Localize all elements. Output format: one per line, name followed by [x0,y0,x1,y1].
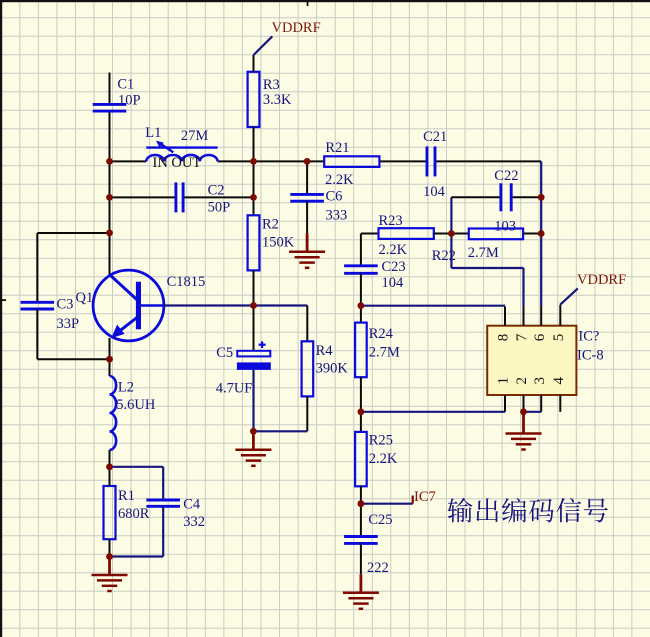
svg-text:C25: C25 [368,512,392,528]
svg-text:104: 104 [382,275,405,291]
svg-text:8: 8 [496,334,512,342]
svg-text:27M: 27M [181,128,209,144]
svg-text:50P: 50P [208,200,231,216]
svg-text:L1: L1 [145,125,161,141]
svg-text:3.3K: 3.3K [263,92,292,108]
svg-text:4.7UF: 4.7UF [216,381,253,397]
svg-text:10P: 10P [118,93,141,109]
svg-text:C4: C4 [183,497,201,513]
svg-text:R23: R23 [379,213,403,229]
svg-text:680R: 680R [118,506,150,522]
svg-text:R22: R22 [432,248,456,264]
svg-text:VDDRF: VDDRF [272,20,321,36]
svg-text:C2: C2 [208,183,225,199]
svg-text:C22: C22 [494,168,518,184]
svg-text:2: 2 [514,377,530,385]
svg-text:5.6UH: 5.6UH [116,397,156,413]
svg-text:C6: C6 [326,189,343,205]
svg-text:390K: 390K [316,361,349,377]
svg-text:6: 6 [532,333,548,341]
svg-text:C5: C5 [216,345,233,361]
svg-text:C3: C3 [57,297,74,313]
svg-text:7: 7 [514,333,530,341]
svg-text:33P: 33P [57,316,80,332]
svg-text:104: 104 [423,184,446,200]
svg-text:R21: R21 [325,140,349,156]
svg-text:IC-8: IC-8 [577,348,604,364]
svg-text:R25: R25 [369,433,393,449]
svg-text:R2: R2 [262,217,279,233]
svg-text:2.7M: 2.7M [369,345,400,361]
svg-text:332: 332 [183,514,205,530]
svg-text:2.2K: 2.2K [325,172,354,188]
svg-text:150K: 150K [262,234,295,250]
svg-text:IC?: IC? [578,329,599,345]
svg-text:C23: C23 [382,259,406,275]
svg-text:222: 222 [367,560,389,576]
svg-text:103: 103 [494,218,516,234]
svg-text:R24: R24 [369,326,394,342]
svg-text:4: 4 [551,377,567,385]
svg-text:VDDRF: VDDRF [577,272,626,288]
svg-text:R4: R4 [316,343,334,359]
svg-text:IN OUT: IN OUT [153,155,202,171]
svg-text:C1: C1 [117,77,134,93]
svg-text:2.2K: 2.2K [379,242,408,258]
svg-text:L2: L2 [118,380,134,396]
svg-text:Q1: Q1 [76,290,94,306]
svg-text:R1: R1 [118,488,135,504]
svg-text:5: 5 [551,334,567,342]
svg-text:C1815: C1815 [167,274,206,290]
svg-text:R3: R3 [263,77,280,93]
svg-text:2.2K: 2.2K [369,451,398,467]
svg-text:IC7: IC7 [414,489,436,505]
svg-text:3: 3 [532,377,548,385]
svg-text:2.7M: 2.7M [468,245,499,261]
svg-text:333: 333 [326,208,348,224]
svg-text:C21: C21 [423,129,447,145]
svg-text:1: 1 [496,377,512,385]
